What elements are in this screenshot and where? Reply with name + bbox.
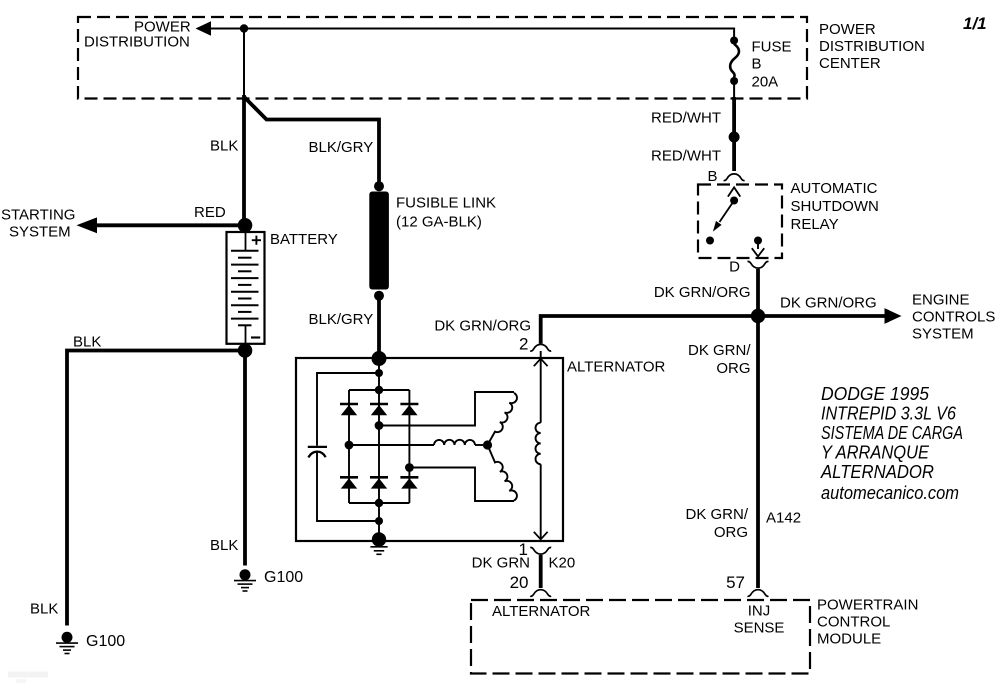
- svg-text:DISTRIBUTION: DISTRIBUTION: [819, 38, 925, 55]
- rotor field wire lower with arrow: [534, 464, 548, 539]
- wire relay D to junction: [756, 269, 760, 312]
- label pin 57: [726, 573, 745, 592]
- svg-text:MODULE: MODULE: [817, 631, 881, 648]
- label DK GRN/ORG right: [780, 295, 877, 312]
- automatic shutdown relay box: [698, 185, 782, 259]
- relay switch common node: [730, 197, 738, 205]
- diode D3: [400, 404, 418, 415]
- node stator feeder C: [405, 463, 414, 472]
- svg-text:ENGINE: ENGINE: [912, 292, 970, 309]
- svg-text:BLK/GRY: BLK/GRY: [309, 311, 374, 328]
- svg-text:ALTERNADOR: ALTERNADOR: [820, 461, 934, 482]
- rectifier left branch wire: [348, 390, 350, 503]
- node stator feeder A: [375, 421, 384, 430]
- label POWER DISTRIBUTION CENTER: [819, 21, 925, 72]
- svg-text:SENSE: SENSE: [734, 620, 785, 637]
- label G100 left: [86, 633, 125, 650]
- label INJ SENSE: [734, 603, 785, 637]
- title block DODGE 1995 INTREPID: [820, 383, 963, 503]
- svg-text:2: 2: [519, 335, 528, 354]
- svg-text:DK GRN/: DK GRN/: [685, 506, 748, 523]
- stator phase B wire: [349, 444, 483, 446]
- stator coil C: [488, 445, 517, 501]
- capacitor: [308, 447, 327, 458]
- connector pin 2: [530, 344, 551, 351]
- wire DK GRN/ORG pin2 to junction: [541, 316, 754, 344]
- connector pin 1: [530, 547, 551, 554]
- svg-text:RELAY: RELAY: [791, 216, 839, 233]
- label DK GRN/ORG below junction: [688, 342, 751, 377]
- label FUSIBLE LINK (12 GA-BLK): [396, 195, 496, 231]
- svg-text:BLK: BLK: [30, 601, 58, 618]
- svg-text:DK GRN: DK GRN: [472, 555, 530, 572]
- svg-text:ORG: ORG: [716, 360, 750, 377]
- svg-text:INJ: INJ: [748, 603, 771, 620]
- connector pin D: [748, 261, 769, 268]
- node stator wye center: [483, 440, 492, 449]
- diode D5: [370, 477, 388, 488]
- fuse B 20A: [730, 37, 739, 86]
- label STARTING SYSTEM: [1, 207, 75, 241]
- wire BLK/GRY branch: [245, 98, 379, 185]
- label DK GRN/ORG above junction: [654, 284, 751, 301]
- rectifier bottom rail: [349, 502, 409, 504]
- svg-text:FUSIBLE LINK: FUSIBLE LINK: [396, 195, 496, 212]
- svg-text:ORG: ORG: [714, 524, 748, 541]
- relay switch contact node: [706, 237, 714, 245]
- label BLK: [210, 138, 238, 155]
- diode D4: [340, 477, 358, 488]
- svg-text:K20: K20: [549, 555, 576, 572]
- svg-text:DK GRN/ORG: DK GRN/ORG: [780, 295, 877, 312]
- svg-text:(12 GA-BLK): (12 GA-BLK): [396, 214, 482, 231]
- rectifier top rail: [349, 389, 409, 391]
- svg-text:DK GRN/: DK GRN/: [688, 342, 751, 359]
- label pin 2: [519, 335, 528, 354]
- svg-text:automecanico.com: automecanico.com: [821, 482, 959, 503]
- svg-text:POWERTRAIN: POWERTRAIN: [817, 597, 918, 614]
- svg-text:BLK/GRY: BLK/GRY: [309, 139, 374, 156]
- label BLK/GRY upper: [309, 139, 374, 156]
- svg-text:BATTERY: BATTERY: [270, 231, 338, 248]
- label B relay pin: [708, 168, 718, 185]
- svg-text:DISTRIBUTION: DISTRIBUTION: [84, 34, 190, 51]
- wire BLK main drop to battery: [242, 95, 246, 221]
- wire DK GRN K20: [539, 555, 543, 588]
- diode D6: [400, 477, 418, 488]
- svg-text:INTREPID 3.3L V6: INTREPID 3.3L V6: [821, 403, 957, 424]
- rotor field coil: [536, 423, 541, 465]
- label pin 1: [519, 540, 528, 559]
- wire junction to PCM pin 57: [756, 316, 760, 588]
- svg-text:CENTER: CENTER: [819, 55, 881, 72]
- arrow to POWER DISTRIBUTION: [196, 21, 212, 35]
- relay pin B arrow: [728, 187, 740, 196]
- relay output node: [754, 237, 762, 245]
- label DK GRN: [472, 555, 530, 572]
- svg-text:DK GRN/ORG: DK GRN/ORG: [434, 318, 531, 335]
- svg-text:RED/WHT: RED/WHT: [651, 148, 721, 165]
- svg-text:CONTROLS: CONTROLS: [912, 309, 995, 326]
- label POWERTRAIN CONTROL MODULE: [817, 597, 918, 648]
- label K20: [549, 555, 576, 572]
- wire alternator center bus: [378, 358, 380, 533]
- svg-text:D: D: [729, 259, 740, 276]
- label AUTOMATIC SHUTDOWN RELAY: [791, 180, 879, 233]
- wire BLK battery negative to left ground: [67, 351, 245, 626]
- relay switch blade: [713, 201, 734, 232]
- ground G100 center: [234, 569, 256, 591]
- stator phase A wire: [379, 392, 514, 426]
- label POWER DISTRIBUTION (inside box): [84, 19, 191, 51]
- svg-text:20: 20: [510, 573, 529, 592]
- diode D1: [340, 404, 358, 415]
- svg-text:20A: 20A: [752, 74, 779, 91]
- node battery positive: [238, 218, 253, 233]
- svg-text:Y ARRANQUE: Y ARRANQUE: [821, 442, 930, 463]
- label G100 center: [264, 569, 303, 586]
- label DK GRN/ORG lower: [685, 506, 748, 541]
- label RED: [194, 204, 226, 221]
- watermark: [8, 672, 48, 684]
- battery: [227, 232, 265, 344]
- label D relay pin: [729, 259, 740, 276]
- label ALTERNATOR (PCM): [492, 603, 591, 620]
- node alternator B+ terminal: [372, 351, 387, 366]
- svg-text:DK GRN/ORG: DK GRN/ORG: [654, 284, 751, 301]
- svg-text:G100: G100: [86, 633, 125, 650]
- svg-text:ALTERNATOR: ALTERNATOR: [567, 359, 666, 376]
- svg-text:SISTEMA DE CARGA: SISTEMA DE CARGA: [821, 422, 963, 443]
- label BLK/GRY lower: [309, 311, 374, 328]
- label BLK left wire lower: [30, 601, 58, 618]
- node stator feeder B: [345, 441, 354, 450]
- svg-text:SYSTEM: SYSTEM: [912, 326, 974, 343]
- node junction at top bus: [240, 24, 248, 32]
- wire drop inside PDC box: [243, 29, 245, 97]
- label pin 20: [510, 573, 529, 592]
- svg-text:RED/WHT: RED/WHT: [651, 110, 721, 127]
- stator phase C wire: [409, 468, 514, 502]
- relay output wire with arrow: [752, 241, 764, 257]
- svg-text:POWER: POWER: [819, 21, 876, 38]
- page number 1/1: [963, 14, 987, 33]
- svg-text:SHUTDOWN: SHUTDOWN: [791, 198, 879, 215]
- arrow DK GRN/ORG to ENGINE CONTROLS SYSTEM: [758, 308, 902, 324]
- diode D2: [370, 404, 388, 415]
- powertrain control module box: [471, 600, 810, 674]
- label DK GRN/ORG at pin 2: [434, 318, 531, 335]
- capacitor branch wire: [317, 373, 379, 521]
- svg-text:BLK: BLK: [73, 334, 101, 351]
- splice node RED/WHT: [729, 132, 740, 143]
- svg-text:B: B: [708, 168, 718, 185]
- node alternator ground: [370, 532, 387, 554]
- svg-text:B: B: [752, 56, 762, 73]
- node capacitor branch bottom: [375, 517, 383, 525]
- wire BLK battery negative down to center ground: [243, 351, 247, 566]
- svg-text:BLK: BLK: [210, 138, 238, 155]
- svg-text:A142: A142: [766, 510, 801, 527]
- label A142: [766, 510, 801, 527]
- wire fuse to relay (RED/WHT): [733, 81, 735, 171]
- svg-text:DODGE 1995: DODGE 1995: [821, 383, 930, 404]
- svg-text:RED: RED: [194, 204, 226, 221]
- svg-text:FUSE: FUSE: [752, 39, 792, 56]
- stator coil A: [488, 393, 517, 445]
- label BATTERY: [270, 231, 338, 248]
- svg-text:1/1: 1/1: [963, 14, 987, 33]
- label ALTERNATOR: [567, 359, 666, 376]
- rectifier right branch wire: [408, 390, 410, 503]
- svg-text:CONTROL: CONTROL: [817, 614, 890, 631]
- node capacitor branch top: [375, 369, 383, 377]
- node battery negative: [238, 343, 253, 358]
- wire fusible link to alternator BLK/GRY: [377, 296, 381, 356]
- power distribution center box: [78, 17, 807, 99]
- wire bus top horizontal: [208, 29, 734, 41]
- node DK GRN/ORG junction: [751, 309, 765, 323]
- label RED/WHT lower: [651, 148, 721, 165]
- svg-text:SYSTEM: SYSTEM: [9, 224, 71, 241]
- label ENGINE CONTROLS SYSTEM: [912, 292, 995, 343]
- connector pin B: [724, 174, 745, 181]
- rotor field wire upper with arrow: [534, 351, 548, 423]
- svg-text:STARTING: STARTING: [1, 207, 75, 224]
- fusible link (12 GA-BLK): [369, 181, 389, 301]
- node rectifier top: [375, 386, 383, 394]
- label BLK left wire upper: [73, 334, 101, 351]
- connector pin 57: [748, 590, 769, 597]
- alternator box: [296, 358, 563, 541]
- svg-text:AUTOMATIC: AUTOMATIC: [791, 180, 878, 197]
- connector pin 20: [530, 590, 551, 597]
- svg-text:ALTERNATOR: ALTERNATOR: [492, 603, 591, 620]
- arrow RED to STARTING SYSTEM: [77, 217, 241, 233]
- svg-text:57: 57: [726, 573, 745, 592]
- svg-text:G100: G100: [264, 569, 303, 586]
- label FUSE B 20A: [752, 39, 792, 91]
- svg-text:BLK: BLK: [210, 537, 238, 554]
- stator coil B: [434, 440, 475, 445]
- label RED/WHT upper: [651, 110, 721, 127]
- ground G100 left: [56, 632, 78, 654]
- node rectifier bottom: [375, 499, 383, 507]
- label BLK center wire: [210, 537, 238, 554]
